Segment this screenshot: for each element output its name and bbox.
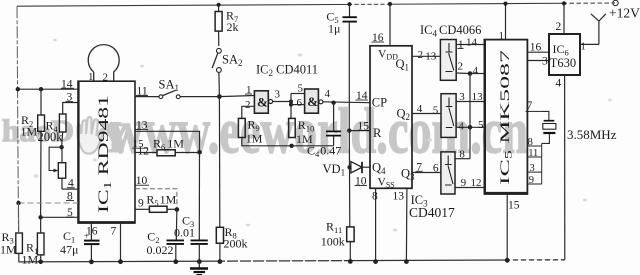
IC3 CD4017 (370, 46, 412, 189)
svg-text:1: 1 (499, 30, 505, 42)
svg-text:13: 13 (472, 91, 484, 103)
wire fade dashes bottom rail (510, 259, 562, 261)
node dot rail-C5 (347, 2, 351, 6)
svg-text:1M: 1M (246, 132, 263, 146)
capacitor C2 (175, 210, 178, 240)
svg-text:R: R (373, 126, 382, 140)
svg-text:13: 13 (425, 50, 437, 62)
analog switch sw3 (441, 152, 455, 194)
svg-text:VSS: VSS (378, 177, 395, 190)
capacitor C4 (333, 103, 335, 131)
svg-text:2: 2 (245, 99, 251, 111)
wire IC1 pin10 dashed (135, 189, 177, 210)
wire to C3 (198, 152, 200, 239)
wire IC1 pin13 loop (135, 131, 200, 152)
IC6 T630 (549, 34, 580, 75)
svg-text:6: 6 (433, 162, 439, 174)
wire Q3 pin7 to sw3 ctl (412, 172, 441, 174)
svg-text:47μ: 47μ (60, 243, 78, 257)
svg-text:0.022: 0.022 (147, 243, 174, 257)
wire pin15 R (349, 130, 370, 132)
wire pin3 (63, 103, 78, 115)
node dot SA junction (217, 94, 222, 99)
svg-text:4: 4 (458, 121, 464, 133)
svg-text:7: 7 (111, 226, 117, 238)
resistor R5 (149, 206, 167, 212)
node dot rail-IC3 pin16 (388, 2, 392, 6)
bottom ground rail (19, 260, 565, 262)
wire IC5 pin16 to IC6 (527, 51, 549, 53)
wire down to VD1/R11 (348, 131, 351, 227)
wire pin4 (62, 188, 78, 190)
wire IC3 pin13 (405, 188, 408, 261)
svg-text:1M: 1M (0, 243, 17, 257)
resistor R3 (16, 233, 23, 253)
svg-text:9: 9 (461, 177, 467, 189)
left rail wire (17, 6, 19, 233)
resistor R7 (218, 5, 220, 12)
NAND gate IC2a (254, 91, 268, 113)
svg-text:13: 13 (393, 191, 405, 203)
svg-text:1: 1 (581, 42, 586, 53)
svg-text:9: 9 (529, 175, 534, 186)
resistor R11 (347, 227, 354, 242)
scan speckle (34, 39, 612, 232)
svg-text:15: 15 (508, 200, 520, 212)
+12V terminal (613, 0, 618, 5)
wire gate1 output (273, 101, 291, 103)
top +12V power rail (17, 3, 615, 6)
svg-text:3: 3 (275, 89, 281, 101)
svg-text:2: 2 (103, 72, 109, 84)
svg-text:5: 5 (298, 83, 304, 95)
microphone B (88, 45, 119, 82)
svg-text:2: 2 (418, 49, 424, 61)
watermark hand (78, 117, 104, 154)
svg-text:3: 3 (459, 91, 465, 103)
wire IC1 pin7 (120, 223, 122, 262)
node dot rail-IC6 pin2 (562, 1, 566, 5)
wire IC6 pin4 to ground rail (564, 75, 566, 260)
wire IC6 pin2 (563, 3, 565, 34)
svg-text:Q1: Q1 (396, 57, 410, 73)
wire IC5 pin15 (506, 194, 508, 260)
IC5 right pins 8 11 3 9 (541, 143, 543, 184)
svg-text:3: 3 (530, 163, 535, 174)
watermark text haoDY (2, 113, 130, 162)
resistor R8 (216, 227, 223, 243)
svg-text:IC1 RD9481: IC1 RD9481 (96, 95, 114, 213)
svg-text:CD4017: CD4017 (409, 205, 455, 220)
wire gate2 output to CP (323, 101, 370, 104)
svg-text:4: 4 (417, 103, 423, 115)
wire to gate pin1 (219, 96, 254, 97)
svg-text:2: 2 (556, 21, 562, 33)
capacitor C5 (349, 4, 351, 16)
svg-text:+: + (84, 231, 89, 241)
wire IC5 pin3 to IC6 (527, 60, 549, 62)
wire pin11 to SA1 (135, 96, 159, 98)
svg-text:200k: 200k (38, 130, 64, 144)
svg-text:12: 12 (471, 177, 482, 189)
resistor R1 (40, 217, 42, 233)
wire IC3 pin16 (389, 4, 391, 46)
svg-text:9: 9 (138, 198, 144, 210)
svg-text:SA1: SA1 (159, 78, 179, 94)
svg-text:5: 5 (433, 105, 439, 117)
svg-text:0.01: 0.01 (174, 226, 195, 240)
svg-text:16: 16 (530, 42, 542, 54)
trimmer potentiometer (49, 147, 62, 170)
svg-text:3.58MHz: 3.58MHz (567, 127, 617, 142)
node dot rail-R7 (217, 3, 221, 7)
wire R9 bottom to C4 bottom (242, 138, 334, 146)
svg-text:1: 1 (88, 71, 94, 83)
svg-text:+12V: +12V (609, 6, 640, 21)
wire IC1 pin9 with R5 (135, 208, 149, 210)
svg-text:T630: T630 (550, 56, 576, 70)
resistor R9 (238, 118, 245, 137)
svg-text:Q3: Q3 (401, 167, 415, 183)
wire IC1 pin12 with R6 (135, 152, 157, 154)
wire C5 to R node (348, 23, 350, 131)
svg-text:CP: CP (372, 96, 387, 110)
IC1 RD9481 (78, 81, 135, 223)
svg-text:11: 11 (528, 148, 538, 159)
svg-text:R11: R11 (326, 220, 342, 236)
switch SA2 (217, 48, 222, 53)
svg-text:4: 4 (473, 65, 479, 77)
svg-text:C40.47: C40.47 (307, 144, 341, 160)
svg-text:1μ: 1μ (328, 22, 340, 36)
svg-text:6: 6 (297, 97, 303, 109)
wire IC5 pin1 (505, 4, 507, 40)
svg-text:8: 8 (528, 137, 533, 148)
svg-text:5: 5 (478, 119, 484, 131)
svg-text:12: 12 (138, 146, 150, 158)
svg-text:IC2 CD4011: IC2 CD4011 (256, 63, 318, 79)
wire Q1 pin2 to sw1 ctl (412, 55, 440, 57)
svg-text:SA2: SA2 (222, 53, 242, 69)
svg-text:3: 3 (542, 56, 548, 68)
analog switch sw1 (440, 40, 456, 81)
IC5 MK5087 (484, 40, 527, 194)
resistor R6 (157, 150, 175, 156)
wire fade dashes top rail (352, 3, 388, 5)
svg-text:8: 8 (459, 149, 465, 161)
svg-text:R61M: R61M (153, 137, 184, 153)
svg-text:200k: 200k (224, 237, 248, 251)
capacitor C3 (191, 239, 208, 241)
capacitor C1 (90, 223, 92, 240)
svg-text:14: 14 (466, 37, 478, 49)
wire Q2 pin4 to sw2 ctl (412, 113, 441, 115)
svg-text:1M: 1M (22, 253, 39, 267)
resistor R4 (59, 114, 66, 132)
wire IC6 pin1 to antenna (580, 43, 599, 45)
svg-text:8: 8 (372, 191, 378, 203)
node gate2 inputs (290, 94, 292, 119)
NAND gate IC2b (305, 89, 319, 113)
svg-text:2: 2 (458, 61, 464, 73)
svg-text:4: 4 (325, 88, 331, 100)
wire pin8 (19, 202, 79, 204)
wire IC3 pin8 (375, 188, 377, 261)
antenna (591, 14, 606, 45)
svg-text:7: 7 (527, 100, 533, 112)
wire SA junction to R8 (218, 97, 220, 228)
resistor R2 (40, 89, 42, 115)
svg-text:R51M: R51M (146, 193, 176, 209)
svg-text:&: & (257, 95, 268, 110)
wire pin5 (41, 216, 78, 218)
wire gate1 pin2 to R9 (242, 106, 255, 118)
ground symbol (198, 262, 200, 268)
svg-text:IC5 MK5087: IC5 MK5087 (497, 49, 514, 185)
node dot R4-pot (59, 145, 63, 149)
resistor R10 (289, 118, 296, 137)
svg-text:1M: 1M (21, 125, 38, 139)
svg-text:100k: 100k (321, 235, 345, 249)
analog switch sw2 (441, 94, 456, 138)
wire pin14 (18, 88, 79, 90)
switch SA1 (159, 95, 163, 99)
svg-text:4: 4 (556, 78, 562, 90)
bus node sw1 out (468, 71, 473, 76)
diode VD1 (351, 162, 362, 173)
svg-text:2k: 2k (227, 20, 239, 34)
svg-text:&: & (307, 94, 318, 109)
node dot rail-IC5 pin1 (503, 2, 507, 6)
